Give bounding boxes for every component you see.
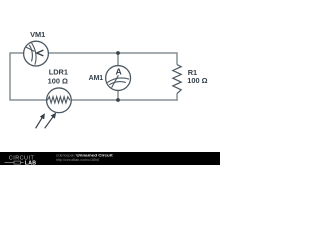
resistor R1: [173, 65, 181, 94]
node junction bottom: [116, 98, 120, 102]
letter V inside VM1 (rotated): [37, 50, 44, 56]
svg-text:LAB: LAB: [25, 160, 37, 165]
svg-text:AM1: AM1: [89, 75, 104, 82]
wire: bottom segment LDR1 to right corner: [71, 99, 178, 101]
wire: AM1 bottom stub: [117, 90, 119, 100]
photoresistor LDR1: [47, 88, 72, 113]
svg-text:LDR1: LDR1: [49, 67, 68, 76]
wire: right vertical above R1: [176, 52, 178, 64]
wire: top-left stub to VM1: [9, 52, 23, 54]
wire: right vertical below R1: [176, 94, 178, 101]
ammeter AM1: [106, 66, 131, 91]
svg-text:100 Ω: 100 Ω: [187, 76, 207, 85]
footer bar: [0, 152, 220, 165]
svg-text:http://circuitlab.com/c/38h6: http://circuitlab.com/c/38h6: [56, 157, 100, 162]
svg-text:A: A: [116, 67, 123, 77]
footer logo schematic line: [5, 162, 24, 164]
footer logo box symbol: [14, 161, 21, 164]
svg-text:100 Ω: 100 Ω: [48, 76, 68, 85]
LDR light arrow 2: [45, 113, 56, 129]
wire: VM1 right to top-right corner: [48, 52, 177, 54]
LDR light arrow 1: [36, 113, 45, 128]
wire: AM1 top stub: [117, 53, 119, 66]
voltmeter VM1: [24, 41, 49, 66]
wire: bottom-left stub to LDR1: [9, 99, 46, 101]
svg-text:VM1: VM1: [30, 30, 45, 39]
wire: left vertical: [9, 53, 11, 100]
node junction top: [116, 51, 120, 55]
